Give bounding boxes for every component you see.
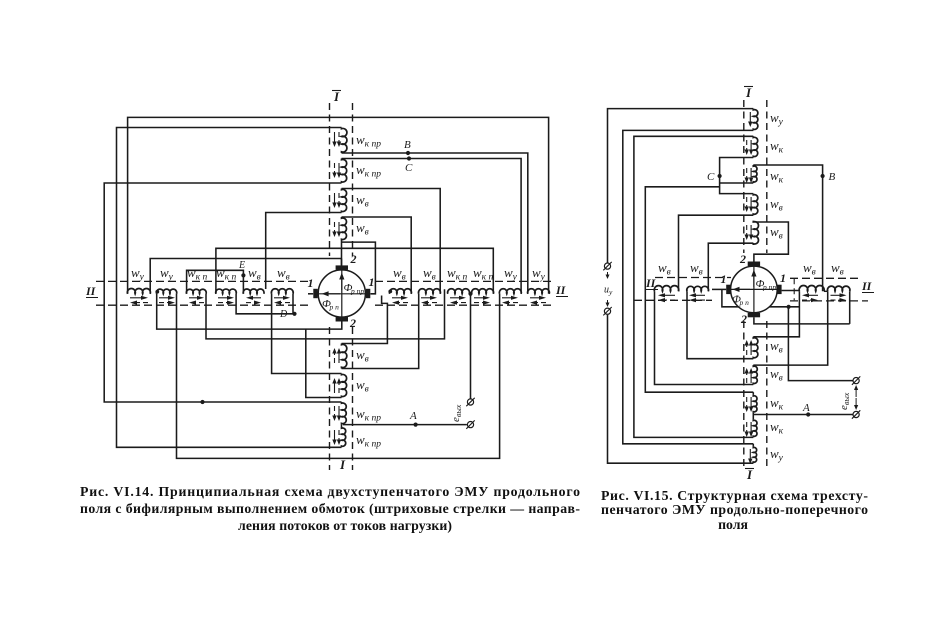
brush 2 bottom (fig.14) [336,317,348,322]
svg-text:wв: wв [393,265,406,283]
svg-text:поля с бифилярным выполнением: поля с бифилярным выполнением обмоток (ш… [80,501,580,517]
flux arrow Phi_r.pr vertical brush axis (fig.15) [753,266,755,312]
wire E2.left down to RB2.top (fig.15) [753,291,827,365]
svg-text:1: 1 [369,275,375,289]
svg-text:евых: евых [838,392,851,410]
svg-text:wк: wк [770,138,784,156]
node C dot and label (fig.14) [407,156,411,160]
wire E1.left down to RB1.top (fig.15) [753,291,799,337]
wire RA5.top hook to top brush (fig.15) [753,222,788,262]
svg-text:А: А [409,410,417,422]
wire link B: RA3.top to E-row junction (fig.15) [753,165,822,291]
svg-text:2: 2 [740,312,747,326]
wire C2r.left link to B1.bottom (fig.14) [342,294,419,369]
svg-text:uу: uу [604,285,613,297]
wire RA2.bottom to node C vertical (fig.15) [720,158,754,194]
output terminal e_vyh upper (fig.14) [466,398,474,406]
output terminal e_vyh lower (fig.15) [852,410,860,418]
winding w_k RA2 (fig.15 top chain) [753,136,757,157]
wire node B: A1.bottom to C6r.left (fig.14) [342,153,528,294]
wire left brush stub (fig.14) [308,293,313,295]
svg-text:А: А [802,402,810,414]
svg-text:wу: wу [770,446,784,464]
wire input top loop to RA1.top (fig.15) [608,109,754,263]
svg-text:пенчатого ЭМУ продольно-попер: пенчатого ЭМУ продольно-поперечного [601,502,868,517]
brush 1 left (fig.14) [313,289,318,298]
winding w_v RB1 (fig.15 bottom chain) [753,337,758,359]
winding w_k.p C4r (fig.14 right row) [472,289,494,294]
winding w_v A3 (fig.14 top chain) [342,189,347,213]
wire A4.top staircase to C1r.right (fig.14) [342,217,412,294]
wire A3.top staircase to C2r.right (fig.14) [342,189,441,294]
brush 2 top (fig.14) [336,265,348,270]
input arrow upper (fig.15) [607,272,609,275]
wire RA1.bottom loop to RB5.top (fig.15) [623,130,754,443]
svg-text:wв: wв [690,260,703,278]
svg-text:wу: wу [770,110,784,128]
flux arrow Phi_r.pr vertical brush axis (fig.14) [341,270,343,317]
winding w_u C5r (fig.14 right row) [499,289,521,294]
node A dot and label (fig.15) [806,412,810,416]
svg-text:wк: wк [770,419,784,437]
winding w_v RA5 (fig.15 top chain) [753,221,758,245]
brush 2 bottom (fig.15) [748,313,760,318]
svg-text:С: С [707,171,715,183]
winding w_k.pr B4 (fig.14 bottom chain) [342,427,346,447]
svg-text:wк: wк [770,168,784,186]
svg-text:wк п: wк п [473,265,493,283]
wire A1.top to B4.bottom outer loop (fig.14) [117,128,342,448]
winding w_k.p C3 (fig.14 left row) [186,289,206,294]
svg-text:wв: wв [423,265,436,283]
tap node E dot and label (fig.14) [241,273,245,277]
winding w_v D2 (fig.15 left row) [687,286,709,291]
svg-text:I: I [745,85,752,100]
svg-text:wк пр: wк пр [356,432,381,450]
winding w_u RA1 (fig.15 top chain) [753,109,758,131]
winding w_v RB2 (fig.15 bottom chain) [753,365,757,384]
winding w_v E2 (fig.15 right row) [827,286,849,291]
winding w_v D1 (fig.15 left row) [654,286,678,292]
svg-text:1: 1 [780,271,786,285]
svg-text:wв: wв [770,224,783,242]
svg-text:wк п: wк п [187,265,207,283]
node C dot and label (fig.15) [718,174,722,178]
svg-text:wв: wв [770,196,783,214]
wire B3-B4 spine stub (fig.14) [341,425,343,427]
svg-text:2: 2 [349,316,356,330]
svg-text:wк пр: wк пр [356,132,381,150]
svg-text:II: II [85,284,97,298]
wire D2.left to RB1.bottom (fig.15) [687,291,753,358]
svg-text:Е: Е [238,260,245,271]
svg-text:р п: р п [739,298,750,307]
input arrow lower (fig.15) [607,300,609,303]
machine armature circle U2 (fig.15) [731,266,778,313]
winding w_k.pr A2 (fig.14 top chain) [342,159,347,184]
brush 1 right (fig.15) [777,285,782,294]
svg-text:wв: wв [356,220,369,238]
wire B1.top hook right into row (fig.14) [342,296,388,344]
svg-text:wк: wк [770,395,784,413]
winding w_k.pr A1 (fig.14 top chain) [342,128,347,153]
svg-text:р пр: р пр [762,283,776,292]
svg-text:Рис. VI.15. Структурная схема: Рис. VI.15. Структурная схема трехсту- [601,488,868,503]
flux arrow Phi_r.p horizontal brush axis (fig.15) [731,288,778,290]
svg-text:В: В [404,139,411,151]
wire down to output upper terminal (fig.15) [788,307,853,381]
axis I-I vertical dashed lines (fig.14) [329,103,331,256]
dashed cap E-row left (fig.15) [793,278,795,300]
wire A3.bottom to C5.right (fig.14) [266,213,342,290]
svg-text:D: D [279,309,288,320]
wire right brush to E1.left (fig.15) [782,290,800,292]
svg-text:Рис. VI.14. Принципиальная схе: Рис. VI.14. Принципиальная схема двухсту… [80,484,580,499]
winding w_u C6r (fig.14 right row) [528,289,550,294]
input terminal u_u lower (fig.15) [603,307,611,315]
wire under machine right segment (fig.15) [769,306,799,308]
wire tap D from C4.right and C6.right (fig.14) [236,294,294,314]
tap node D dot and label (fig.14) [292,312,296,316]
svg-text:С: С [405,162,413,174]
wire bottom brush loop to output (fig.15) [754,317,850,324]
svg-text:wв: wв [277,265,290,283]
wire input bottom loop to RB5.bottom (fig.15) [608,315,754,464]
svg-text:I: I [746,467,753,482]
svg-text:wв: wв [658,260,671,278]
wire E2.right stub down (fig.15) [849,291,851,324]
svg-text:I: I [333,89,340,104]
wire left brush stub (fig.15) [712,288,726,290]
winding w_k RB4 (fig.15 bottom chain) [753,419,757,437]
svg-text:евых: евых [450,404,463,422]
winding w_k.p C4 (fig.14 left row) [216,289,237,294]
brush 1 left (fig.15) [726,285,731,294]
wire RA4.bottom to D1.right (fig.15) [679,215,754,291]
svg-text:II: II [555,283,567,297]
winding w_v RA4 (fig.15 top chain) [753,194,758,216]
axis I-I vertical dashed lines (fig.15) [743,100,745,253]
winding w_v C5 (fig.14 left row) [243,289,264,294]
wire output branch up to coil junction (fig.14) [470,294,472,399]
svg-text:wв: wв [831,260,844,278]
machine armature circle U1 (fig.14) [318,270,365,317]
wire mid loop to RB3.top (fig.15) [645,187,753,392]
wire top loop C1.left to C6r.right (fig.14) [128,117,549,293]
junction dot on B3.top wire (fig.14) [200,400,204,404]
flux arrow Phi_r.p horizontal brush axis (fig.14) [318,293,365,295]
svg-text:wк п: wк п [447,265,467,283]
winding w_v C1r (fig.14 right row) [389,289,411,294]
svg-text:1: 1 [308,276,314,290]
winding w_u C1 (fig.14 left row) [127,288,150,293]
svg-text:wу: wу [131,265,145,283]
wire RB3-RB4 junction to output node A (fig.15) [753,414,853,416]
winding w_v B2 (fig.14 bottom chain) [342,374,347,398]
wire A4.bottom to right brush hook (fig.14) [342,242,376,294]
axis II-II horizontal dashed lines (fig.14) [96,280,308,282]
svg-text:В: В [829,171,836,183]
wire hang vertical to B2.bottom (fig.14) [306,329,342,397]
wire C2.right to bottom loop to C5r.left (fig.14) [177,294,500,459]
svg-text:wв: wв [770,338,783,356]
svg-text:1: 1 [721,272,727,286]
node B dot and label (fig.14) [406,151,410,155]
winding w_v C2r (fig.14 right row) [418,289,440,294]
svg-text:2: 2 [739,252,746,266]
wire B3-B4 junction to output with node A (fig.14) [343,424,467,426]
wire C3.right long link under machine (fig.14) [206,289,445,339]
svg-text:wу: wу [504,265,518,283]
svg-text:поля: поля [718,517,748,532]
wire RA2.top loop to RB4.bottom (fig.15) [634,136,753,437]
output terminal e_vyh lower (fig.14) [466,420,474,428]
brush 2 top (fig.15) [748,262,760,267]
wire RA5.bottom to D2.right (fig.15) [708,243,753,291]
axis II dashed right row (fig.15) [790,277,858,279]
svg-text:2: 2 [350,252,357,266]
wire A2.bottom to B3.top outer loop (fig.14) [104,183,341,402]
wire C1.right to top brush spine (fig.14) [150,259,341,294]
wire A4.bottom to top brush (fig.14) [341,241,343,266]
winding w_v E1 (fig.15 right row) [799,286,824,292]
svg-text:wк пр: wк пр [356,162,381,180]
brush 1 right (fig.14) [366,289,371,298]
svg-text:ления потоков от токов нагрузк: ления потоков от токов нагрузки) [238,518,452,534]
winding w_v A4 (fig.14 top chain) [342,217,347,240]
wire bridge over C3 with tap E (fig.14) [187,270,244,294]
winding w_u RB5 (fig.15 bottom chain) [753,446,756,463]
junction dot near machine bottom right (fig.15) [787,305,791,309]
wire under machine left segment (fig.15) [722,289,739,306]
svg-text:wв: wв [803,260,816,278]
winding w_k RB3 (fig.15 bottom chain) [753,395,757,413]
input terminal u_u upper (fig.15) [603,262,611,270]
winding w_v C6 (fig.14 left row) [271,289,293,294]
node B dot and label (fig.15) [821,174,825,178]
winding w_k.pr B3 (fig.14 bottom chain) [342,402,347,425]
svg-text:I: I [339,457,346,472]
wire C6.left to B2.top (fig.14) [272,294,342,374]
svg-text:II: II [861,279,873,293]
svg-text:wк пр: wк пр [356,406,381,424]
svg-text:wв: wв [356,347,369,365]
axis II dashed left row (fig.15) [655,277,731,279]
wire cross link C4.left to C4r.right (fig.14) [216,248,493,293]
svg-text:wв: wв [356,377,369,395]
svg-text:р п: р п [329,303,340,312]
svg-text:wв: wв [248,265,261,283]
svg-text:wк п: wк п [216,265,236,283]
output terminal e_vyh upper (fig.15) [852,376,860,384]
svg-text:wв: wв [770,366,783,384]
wire node C: A2.top to C5r.right (fig.14) [342,159,522,294]
junction dot C3r-C4r (fig.14) [468,292,472,296]
wire bottom brush to C2.left (fig.14) [157,294,342,329]
wire RA3.bottom lead to C vertical (fig.15) [720,182,754,184]
svg-text:wв: wв [356,192,369,210]
wire D1.left to RB2.bottom (fig.15) [655,291,754,384]
winding w_k RA3 (fig.15 top chain) [753,165,757,183]
winding w_k.p C3r (fig.14 right row) [448,289,470,294]
node A dot and label (fig.14) [414,423,418,427]
svg-text:wу: wу [532,265,546,283]
svg-text:wу: wу [160,265,174,283]
winding w_v B1 (fig.14 bottom chain) [342,344,347,369]
winding w_u C2 (fig.14 left row) [157,289,177,294]
